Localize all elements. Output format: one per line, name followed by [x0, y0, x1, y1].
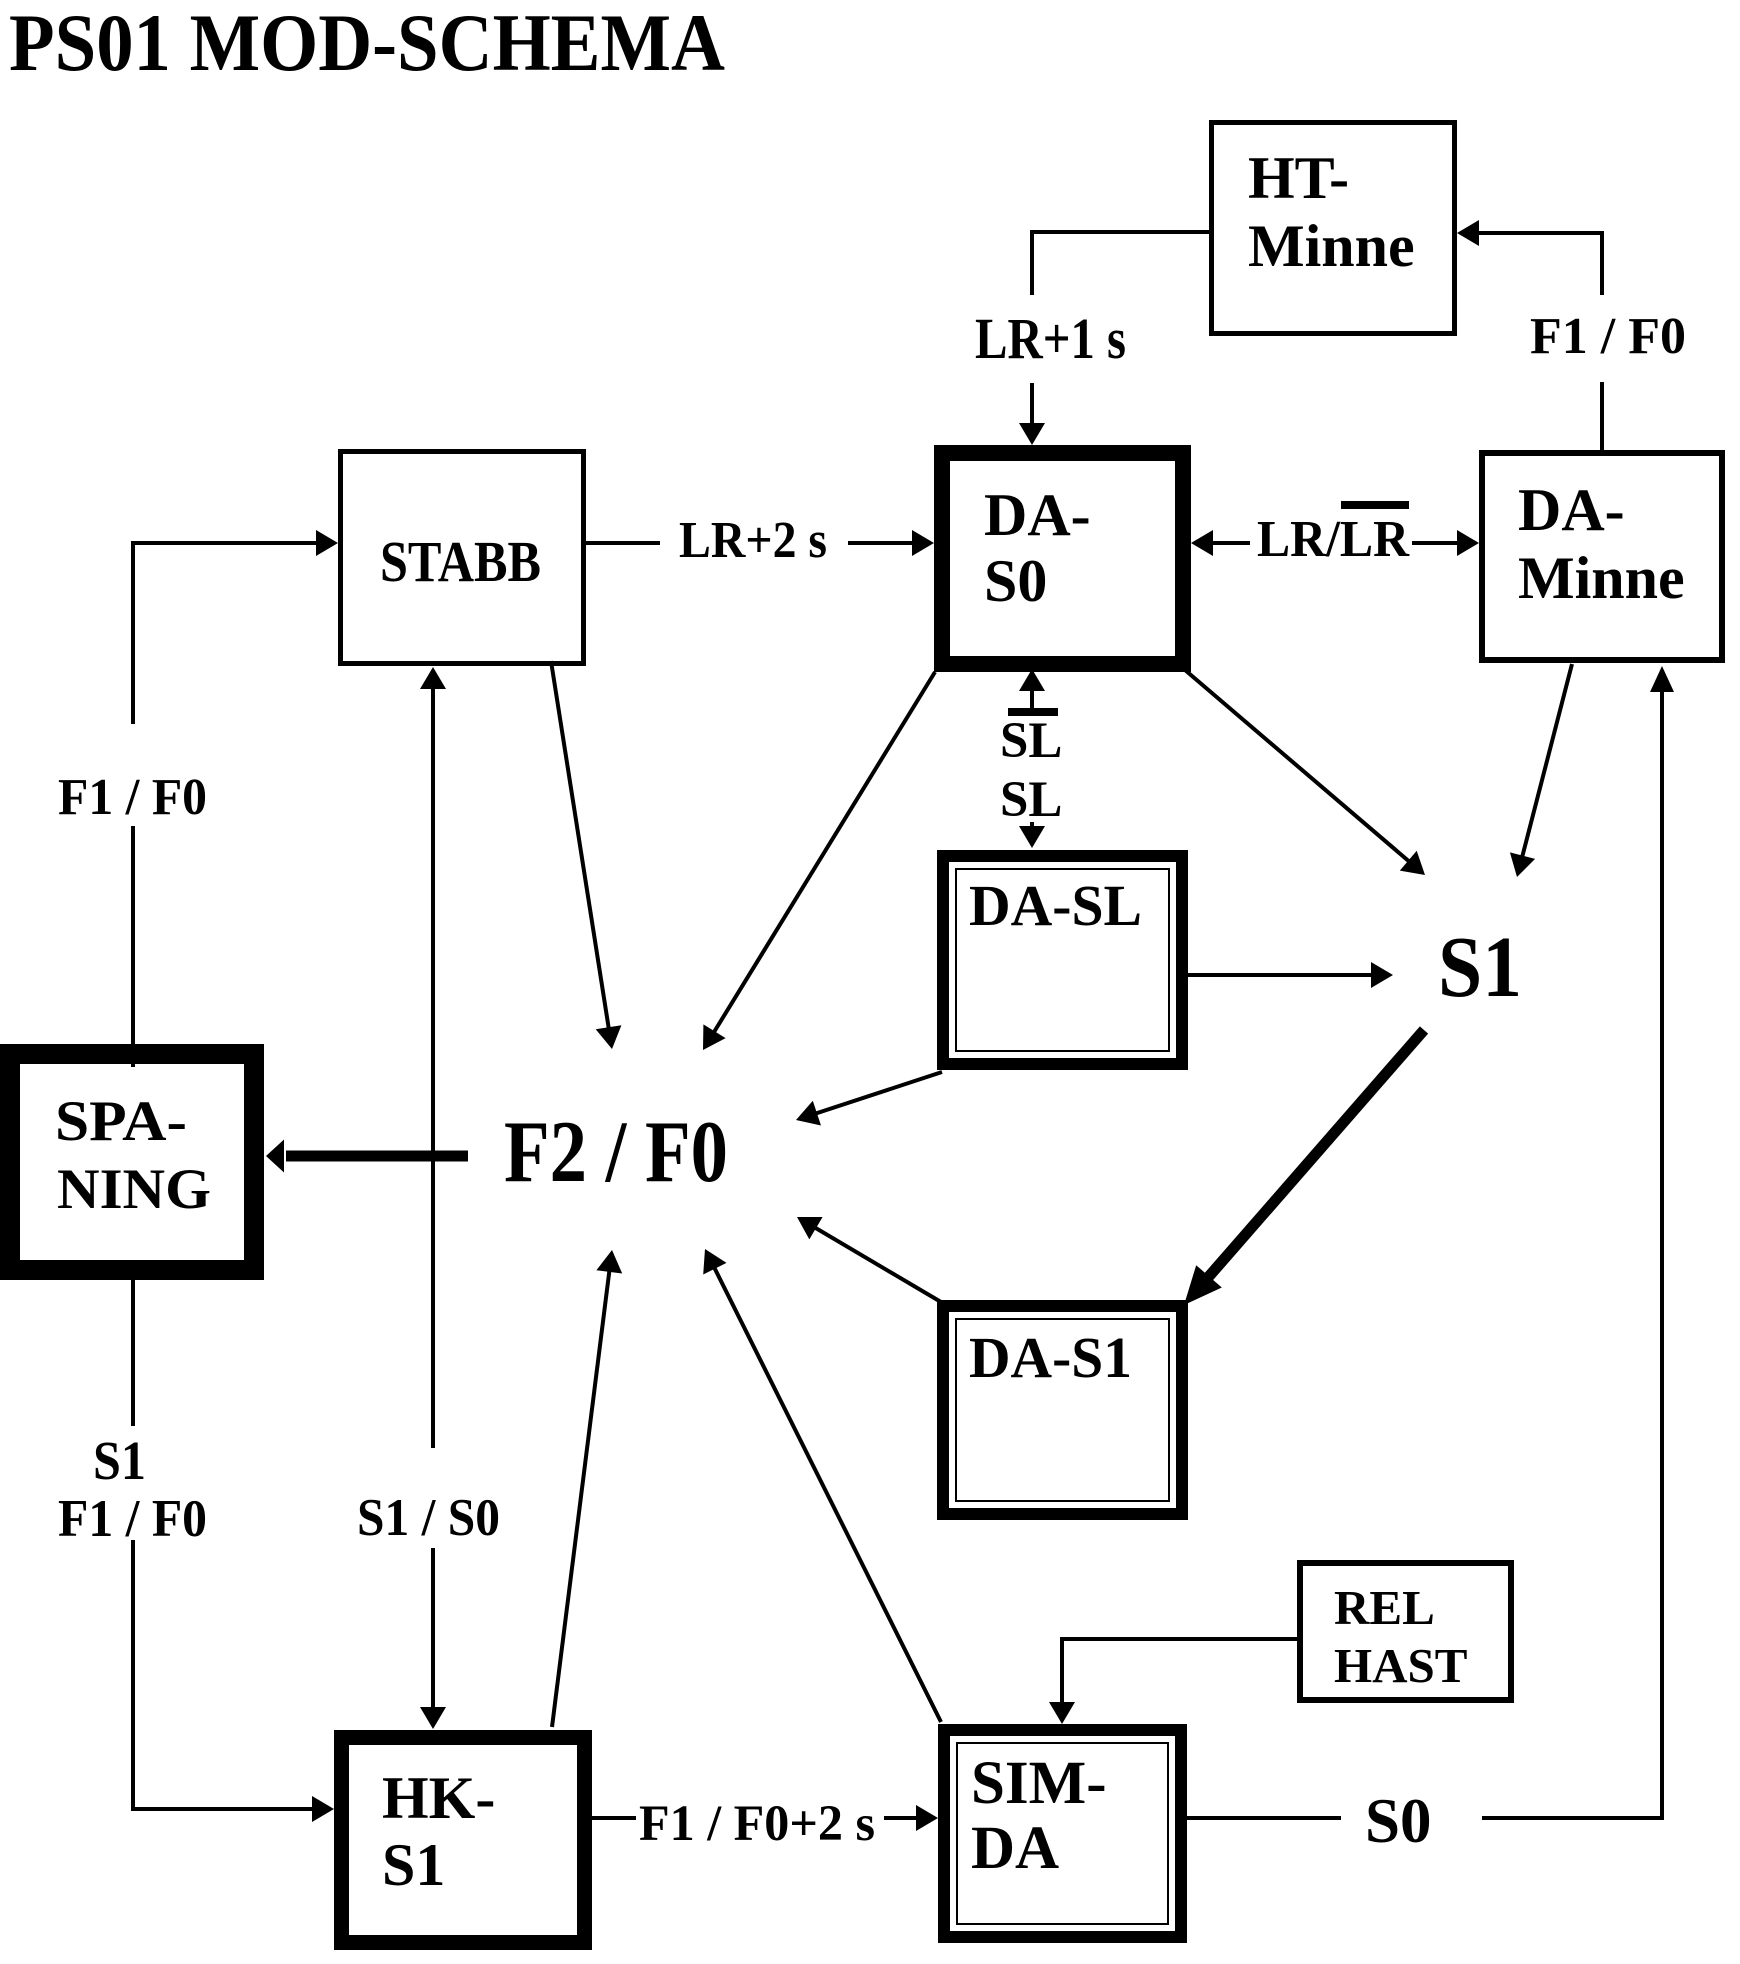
- arrow SL down into DA-SL top: [1019, 822, 1045, 848]
- svg-text:DA-S1: DA-S1: [969, 1325, 1132, 1390]
- box DA-SL (double border): [943, 856, 1182, 1064]
- thick arrow F2/F0 to SPANING right: [266, 1140, 468, 1173]
- svg-text:LR+1 s: LR+1 s: [975, 306, 1126, 371]
- label HK-: [382, 1765, 495, 1831]
- svg-text:NING: NING: [57, 1158, 211, 1221]
- svg-text:LR+2 s: LR+2 s: [679, 512, 827, 569]
- svg-text:F1 / F0: F1 / F0: [1530, 308, 1686, 365]
- box HK-S1 (thick): [342, 1738, 585, 1943]
- svg-text:SL: SL: [1000, 772, 1062, 828]
- svg-text:F1 / F0+2 s: F1 / F0+2 s: [639, 1796, 875, 1852]
- wire STABB bottom / HK-S1 top double arrow (S1 / S0): [420, 667, 446, 1729]
- wire REL HAST left down into SIM-DA top: [1049, 1637, 1297, 1724]
- svg-text:S0: S0: [984, 548, 1047, 614]
- svg-text:F1 / F0: F1 / F0: [58, 769, 207, 826]
- svg-text:S0: S0: [1365, 1786, 1432, 1856]
- label F2 / F0: [504, 1104, 728, 1201]
- svg-text:DA-: DA-: [1518, 477, 1625, 543]
- svg-text:S1: S1: [382, 1832, 445, 1898]
- label STABB: [380, 529, 541, 594]
- box SIM-DA (double border): [944, 1730, 1181, 1937]
- box DA-S0 (thick): [942, 453, 1183, 664]
- diagonal HK-S1 top to F2/F0: [552, 1250, 622, 1727]
- box SPANING (thick): [10, 1054, 254, 1270]
- svg-text:S1: S1: [1438, 918, 1522, 1015]
- arrow SL-bar up into DA-S0 bottom: [1008, 669, 1058, 716]
- diagonal DA-S0 bottom-right to S1: [1185, 670, 1425, 875]
- label Minne: [1248, 213, 1415, 279]
- svg-text:SPA-: SPA-: [55, 1090, 187, 1153]
- label LR/LR: [1257, 511, 1410, 568]
- label S0 in DA-S0: [984, 548, 1047, 614]
- wire SPANING bottom to HK-S1 left (S1, F1 / F0): [133, 1280, 334, 1822]
- label Minne: [1518, 545, 1685, 611]
- svg-text:F1 / F0: F1 / F0: [58, 1490, 207, 1548]
- svg-text:REL: REL: [1334, 1580, 1435, 1635]
- wire HT-Minne left to DA-S0 top (LR+1 s): [1019, 230, 1209, 445]
- label SIM-: [971, 1750, 1107, 1817]
- box REL HAST: [1300, 1563, 1511, 1700]
- diagonal SIM-DA top-left to F2/F0: [703, 1249, 941, 1722]
- label F1 / F0 top right: [1530, 308, 1686, 365]
- label S1 / S0: [357, 1489, 500, 1547]
- label SPA-: [55, 1090, 187, 1153]
- svg-text:F2 / F0: F2 / F0: [504, 1104, 728, 1201]
- label DA-: [984, 482, 1091, 548]
- svg-text:SIM-: SIM-: [971, 1750, 1107, 1817]
- svg-text:Minne: Minne: [1518, 545, 1685, 611]
- overline over second LR: [1341, 501, 1409, 509]
- label DA-SL: [969, 873, 1142, 938]
- wire left loop to STABB left (F1 / F0): [131, 530, 338, 1067]
- label F1 / F0+2 s: [639, 1796, 875, 1852]
- label HAST: [1334, 1638, 1467, 1693]
- label S1 (state): [1438, 918, 1522, 1015]
- label SL: [1000, 772, 1062, 828]
- svg-text:DA: DA: [971, 1815, 1059, 1882]
- svg-text:STABB: STABB: [380, 529, 541, 594]
- svg-text:PS01 MOD-SCHEMA: PS01 MOD-SCHEMA: [9, 0, 725, 88]
- diagonal DA-S0 bottom-left to F2/F0: [703, 672, 935, 1050]
- label REL: [1334, 1580, 1435, 1635]
- svg-text:SL: SL: [1000, 713, 1062, 769]
- wire HK-S1 right to SIM-DA left (F1 / F0+2 s): [592, 1805, 938, 1831]
- label S0: [1365, 1786, 1432, 1856]
- svg-text:S1 / S0: S1 / S0: [357, 1489, 500, 1547]
- label LR+1 s: [975, 306, 1126, 371]
- label F1 / F0 lower left: [58, 1490, 207, 1548]
- svg-text:HT-: HT-: [1248, 145, 1349, 211]
- diagonal DA-Minne bottom to S1: [1510, 664, 1572, 877]
- box DA-S1 (double border): [943, 1306, 1182, 1514]
- svg-text:LR/LR: LR/LR: [1257, 511, 1410, 568]
- svg-text:S1: S1: [93, 1430, 146, 1491]
- box STABB: [341, 452, 584, 664]
- svg-text:DA-SL: DA-SL: [969, 873, 1142, 938]
- wire DA-SL right to S1: [1188, 962, 1393, 988]
- diagonal STABB bottom to F2/F0: [551, 661, 621, 1049]
- wire DA-Minne top to HT-Minne right (F1 / F0): [1457, 220, 1604, 450]
- box DA-Minne: [1482, 453, 1722, 660]
- label S1 in HK-S1: [382, 1832, 445, 1898]
- label F1 / F0 upper left: [58, 769, 207, 826]
- diagonal DA-S1 top-left to F2/F0: [797, 1217, 941, 1302]
- label DA-: [1518, 477, 1625, 543]
- svg-text:HK-: HK-: [382, 1765, 495, 1831]
- svg-text:DA-: DA-: [984, 482, 1091, 548]
- wire STABB right to DA-S0 left (LR+2 s): [586, 530, 934, 556]
- title PS01 MOD-SCHEMA: [9, 0, 725, 88]
- label S1 small: [93, 1430, 146, 1491]
- svg-text:Minne: Minne: [1248, 213, 1415, 279]
- label SL (negated): [1000, 713, 1062, 769]
- label DA in SIM-DA: [971, 1815, 1059, 1882]
- label HT-: [1248, 145, 1349, 211]
- wire SIM-DA right via S0 up to DA-Minne bottom: [1187, 666, 1674, 1820]
- wire DA-S0/DA-Minne double arrow (LR/LR): [1191, 530, 1479, 556]
- label LR+2 s: [679, 512, 827, 569]
- label NING: [57, 1158, 211, 1221]
- diagonal DA-SL bottom-left to F2/F0: [796, 1072, 942, 1126]
- label DA-S1: [969, 1325, 1132, 1390]
- svg-text:HAST: HAST: [1334, 1638, 1467, 1693]
- thick arrow S1 to DA-S1 top-right: [1184, 1030, 1424, 1305]
- box HT-Minne: [1212, 123, 1455, 334]
